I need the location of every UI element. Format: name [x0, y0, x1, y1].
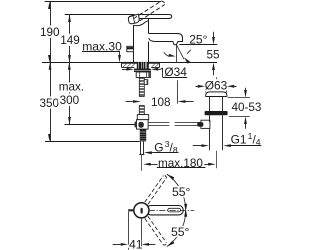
extension line from spout outlet down (x=178)	[177, 80, 179, 103]
extension line cap underside	[228, 97, 250, 99]
spout angle reference vertical line	[176, 45, 178, 63]
spout	[149, 34, 183, 45]
faucet body circle (top view)	[134, 203, 149, 218]
drain tailpipe G1 1/4	[209, 128, 211, 150]
extension line flange bottom	[229, 116, 250, 118]
dimension 149 (deck to spout ref)	[69, 15, 71, 63]
svg-text:108: 108	[151, 96, 171, 109]
countertop cross-section hatching	[121, 63, 123, 68]
dimension 350 (deck to hose end)	[50, 63, 52, 142]
extension line at y=141.4 (hose connector end)	[45, 141, 140, 143]
left angle arrow pointing at vertical line	[164, 52, 169, 56]
mounting nut	[136, 72, 150, 78]
svg-text:55°: 55°	[172, 185, 191, 199]
rod ball nut	[197, 122, 203, 126]
drain centerline below tailpipe	[216, 151, 218, 169]
dimension 41 (knob to center)	[128, 212, 130, 250]
faucet body left edge	[133, 25, 135, 62]
lever pivot knob front	[128, 14, 139, 24]
G1 1/4 arrows at tailpipe walls	[193, 145, 202, 147]
hose connection manifold	[137, 115, 148, 120]
top view swivel arcs 55deg	[167, 174, 186, 209]
lever inner slot	[168, 208, 181, 212]
dimension max.300 (deck to supply connection)	[69, 63, 71, 125]
lever centerline	[149, 210, 194, 212]
dashed lever at +55deg (top view)	[148, 178, 167, 205]
spout spray axis 25deg tilted line	[176, 45, 184, 60]
svg-text:350: 350	[39, 97, 59, 110]
underline of 25deg / extension to 55 dim	[179, 44, 217, 46]
svg-text:41: 41	[129, 238, 143, 250]
threaded stud lower part	[139, 106, 144, 115]
lever handle (rest position)	[138, 15, 172, 19]
threaded shank through deck	[137, 62, 149, 69]
dashed lever at -55deg (top view)	[145, 218, 164, 245]
flexible hoses	[140, 141, 142, 155]
svg-text:55°: 55°	[171, 225, 190, 239]
drain plug cap	[206, 92, 227, 97]
svg-text:max.180: max.180	[158, 157, 203, 170]
cartridge dome under lever	[134, 21, 149, 26]
dimension 190 (deck to lever top)	[50, 2, 52, 63]
extension line top of lever (y=1.5)	[45, 1, 161, 3]
drain neck	[209, 97, 211, 112]
svg-text:190: 190	[40, 26, 60, 39]
body right edge below spout	[148, 42, 150, 63]
pop-up knob (top view)	[128, 209, 134, 211]
pop-up rod knob at back of body	[127, 46, 134, 51]
svg-text:40-53: 40-53	[232, 101, 262, 114]
raised lever (dashed)	[134, 1, 162, 19]
hose clip tab on stud	[144, 80, 148, 85]
threaded stud upper part	[139, 78, 144, 97]
drain centerline above cap	[216, 77, 218, 81]
horizontal pop-up rod	[148, 122, 170, 124]
mounting washer	[134, 69, 151, 72]
extension line lever rest top (y=14.1)	[65, 14, 135, 16]
pop-up rod housing on drain	[201, 120, 210, 128]
G3/8 connection nipple	[140, 129, 146, 141]
dimension 55 (spout outlet height)	[213, 32, 215, 40]
label Ø34 with frame	[161, 68, 163, 69]
dimension 108 (center to outlet)	[133, 100, 141, 103]
dimension 40-53	[245, 88, 247, 93]
extension line at y=124.3 (supply connection level)	[65, 124, 138, 126]
svg-text:55: 55	[206, 48, 220, 61]
countertop surface bold segment under base	[122, 62, 160, 64]
svg-text:300: 300	[60, 94, 80, 107]
dimension arrows for mounting hole	[127, 68, 135, 71]
right angle arrow pointing at spray axis line	[187, 50, 191, 54]
extension lines flange diameter	[205, 90, 207, 92]
svg-text:Ø34: Ø34	[164, 65, 187, 79]
svg-text:max.: max.	[59, 81, 84, 94]
svg-text:149: 149	[60, 34, 80, 47]
countertop surface line	[42, 62, 217, 64]
knob inner line	[129, 15, 136, 23]
drain seal flange (dark)	[205, 111, 228, 115]
faucet centerline extension below hoses	[141, 155, 143, 171]
svg-text:Ø63: Ø63	[205, 79, 228, 93]
drain body below flange	[209, 115, 211, 120]
top view lever	[146, 206, 183, 215]
lever pin slot in circle	[141, 208, 143, 214]
faucet neck right edge	[148, 19, 150, 34]
pop-up rod cross fitting	[137, 120, 149, 129]
